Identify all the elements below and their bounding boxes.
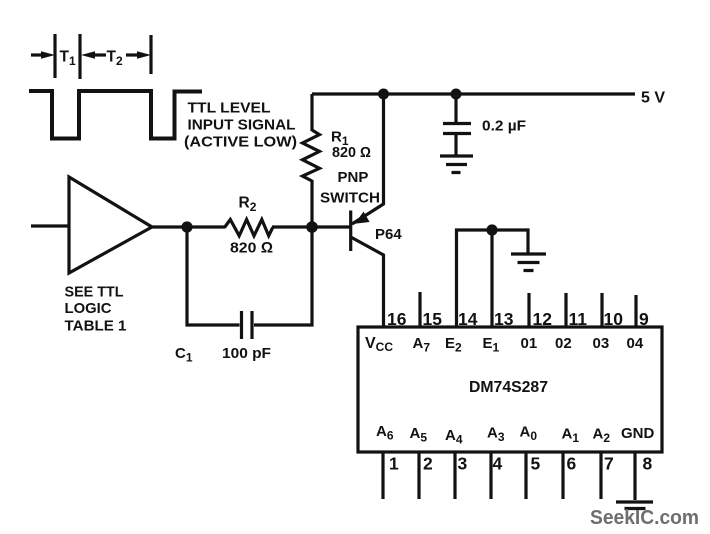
svg-text:5 V: 5 V xyxy=(641,90,665,107)
IC U2 DM74S287 box xyxy=(358,327,662,452)
capacitor 0.2uF top wire xyxy=(454,94,457,123)
capacitor C1 left wire xyxy=(187,227,240,325)
label 100 pF xyxy=(222,346,271,362)
svg-text:4: 4 xyxy=(493,454,503,474)
pin label 04 xyxy=(627,335,644,352)
svg-text:(ACTIVE LOW): (ACTIVE LOW) xyxy=(184,134,297,151)
node A junction dot buffer output xyxy=(181,221,192,232)
pin label A0 xyxy=(520,424,538,444)
pin number 7 xyxy=(604,454,614,474)
svg-text:10: 10 xyxy=(604,309,624,329)
svg-text:7: 7 xyxy=(604,454,614,474)
svg-text:C1: C1 xyxy=(175,345,193,365)
timing dimension tick T1/T2 middle xyxy=(78,34,81,79)
arrow T2 left xyxy=(81,51,106,59)
pin 6 stub xyxy=(561,452,564,499)
wire R2 to transistor base xyxy=(272,225,351,228)
pin 1 stub xyxy=(381,452,384,499)
wire buffer output to R2 xyxy=(152,225,225,228)
svg-text:GND: GND xyxy=(621,425,655,442)
svg-text:3: 3 xyxy=(458,454,468,474)
pin 10 stub xyxy=(600,293,603,327)
pin label 01 xyxy=(521,335,538,352)
svg-text:1: 1 xyxy=(389,454,399,474)
capacitor C1 plates xyxy=(242,311,253,339)
node rail dot at capacitor branch xyxy=(451,89,462,100)
svg-text:01: 01 xyxy=(521,335,538,352)
capacitor 0.2uF plates xyxy=(443,124,471,134)
label 5 V xyxy=(641,90,665,107)
svg-text:A1: A1 xyxy=(562,426,580,446)
svg-text:VCC: VCC xyxy=(365,335,393,354)
node rail dot at transistor branch xyxy=(378,89,389,100)
pin number 12 xyxy=(533,309,553,329)
5V rail wire xyxy=(312,92,635,95)
watermark SeekIC.com xyxy=(590,506,699,529)
TTL input waveform xyxy=(29,91,202,139)
label R1 xyxy=(331,129,349,149)
svg-text:E2: E2 xyxy=(445,335,462,355)
pin 4 stub xyxy=(489,452,492,499)
pin number 4 xyxy=(493,454,503,474)
svg-text:DM74S287: DM74S287 xyxy=(469,379,548,396)
pin number 8 xyxy=(643,454,653,474)
pin label A4 xyxy=(445,427,463,447)
svg-text:T2: T2 xyxy=(107,49,123,69)
svg-text:T1: T1 xyxy=(60,49,76,69)
node B junction dot base node xyxy=(306,221,318,233)
arrow into T1 tick xyxy=(31,51,55,59)
pin label A1 xyxy=(562,426,580,446)
pin number 3 xyxy=(458,454,468,474)
capacitor 0.2uF bottom wire xyxy=(454,133,457,156)
svg-text:A3: A3 xyxy=(487,425,505,445)
svg-text:16: 16 xyxy=(387,309,407,329)
label R2 xyxy=(239,195,257,215)
pin number 10 xyxy=(604,309,624,329)
wire input to buffer xyxy=(31,224,69,227)
pin number 11 xyxy=(569,309,588,329)
pin 3 stub xyxy=(453,452,456,499)
svg-text:12: 12 xyxy=(533,309,553,329)
svg-text:A6: A6 xyxy=(376,423,394,443)
svg-text:PNP: PNP xyxy=(338,169,369,186)
label C1 xyxy=(175,345,193,365)
svg-text:6: 6 xyxy=(567,454,577,474)
pin 5 stub xyxy=(524,452,527,499)
pin label E2 xyxy=(445,335,462,355)
svg-text:14: 14 xyxy=(458,309,478,329)
label 820 ohm R1 xyxy=(332,145,371,161)
timing dimension tick T2 right xyxy=(149,35,152,74)
label PNP SWITCH xyxy=(320,169,380,207)
svg-text:5: 5 xyxy=(531,454,541,474)
ground for E1/E2 xyxy=(511,254,546,271)
pin number 5 xyxy=(531,454,541,474)
label T1 xyxy=(60,49,76,69)
label T2 xyxy=(107,49,123,69)
transistor Q1 base bar xyxy=(349,211,352,252)
pin label A7 xyxy=(413,335,431,355)
transistor Q1 emitter wire from rail xyxy=(352,94,384,224)
pin number 14 xyxy=(458,309,478,329)
label 0.2 uF xyxy=(482,119,526,135)
wire E2/E1 tie xyxy=(457,230,529,327)
svg-text:A2: A2 xyxy=(593,426,611,446)
timing dimension tick T1 left xyxy=(53,34,56,78)
transistor Q1 collector wire to pin 16 xyxy=(351,237,384,327)
svg-text:A7: A7 xyxy=(413,335,431,355)
svg-text:SeekIC.com: SeekIC.com xyxy=(590,506,699,529)
svg-text:R2: R2 xyxy=(239,195,257,215)
label P64 xyxy=(375,226,402,243)
wire E1 riser xyxy=(490,230,493,327)
pin 8 stub xyxy=(633,452,636,500)
pin label GND xyxy=(621,425,655,442)
ground at pin 8 xyxy=(616,502,653,509)
svg-text:TABLE 1: TABLE 1 xyxy=(65,318,127,335)
svg-text:TTL LEVEL: TTL LEVEL xyxy=(188,100,271,117)
pin number 15 xyxy=(423,309,443,329)
pin number 1 xyxy=(389,454,399,474)
svg-text:P64: P64 xyxy=(375,226,402,243)
node junction dot E1 xyxy=(486,224,497,235)
pin label 03 xyxy=(593,335,610,352)
pin number 16 xyxy=(387,309,407,329)
pin label 02 xyxy=(555,335,572,352)
resistor R1 zigzag xyxy=(303,130,320,181)
svg-text:820 Ω: 820 Ω xyxy=(332,145,371,161)
pin label A3 xyxy=(487,425,505,445)
svg-text:15: 15 xyxy=(423,309,443,329)
pin number 6 xyxy=(567,454,577,474)
svg-text:8: 8 xyxy=(643,454,653,474)
resistor R1 bottom wire xyxy=(310,180,313,227)
pin 11 stub xyxy=(564,293,567,327)
pin 12 stub xyxy=(527,293,530,327)
svg-text:A5: A5 xyxy=(410,425,428,445)
ground below 0.2uF xyxy=(440,156,473,173)
svg-text:13: 13 xyxy=(494,309,514,329)
label DM74S287 xyxy=(469,379,548,396)
svg-text:0.2 µF: 0.2 µF xyxy=(482,119,526,135)
pin number 13 xyxy=(494,309,514,329)
transistor Q1 emitter arrowhead xyxy=(355,212,370,224)
pin label A5 xyxy=(410,425,428,445)
pin label E1 xyxy=(483,335,500,355)
svg-text:A0: A0 xyxy=(520,424,538,444)
pin 9 stub xyxy=(634,295,637,327)
svg-text:2: 2 xyxy=(423,454,433,474)
svg-text:03: 03 xyxy=(593,335,610,352)
svg-text:11: 11 xyxy=(569,309,588,329)
label SEE TTL LOGIC TABLE 1 xyxy=(65,284,127,335)
svg-text:02: 02 xyxy=(555,335,572,352)
resistor R1 top wire xyxy=(310,94,313,131)
svg-text:SWITCH: SWITCH xyxy=(320,190,380,207)
label 820 ohm R2 xyxy=(230,240,273,257)
buffer U1 triangle xyxy=(69,177,152,273)
svg-text:SEE TTL: SEE TTL xyxy=(65,284,124,301)
pin label A2 xyxy=(593,426,611,446)
svg-text:INPUT SIGNAL: INPUT SIGNAL xyxy=(188,117,296,134)
pin 7 stub xyxy=(599,452,602,499)
pin 2 stub xyxy=(417,452,420,499)
resistor R2 zigzag xyxy=(225,220,273,236)
svg-text:E1: E1 xyxy=(483,335,500,355)
svg-text:100 pF: 100 pF xyxy=(222,346,271,362)
arrow T2 right xyxy=(126,51,151,59)
svg-text:9: 9 xyxy=(639,309,649,329)
label TTL LEVEL INPUT SIGNAL (ACTIVE LOW) xyxy=(184,100,297,151)
pin number 2 xyxy=(423,454,433,474)
svg-text:LOGIC: LOGIC xyxy=(65,300,112,317)
capacitor C1 right wire xyxy=(254,227,312,325)
pin number 9 xyxy=(639,309,649,329)
pin label A6 xyxy=(376,423,394,443)
svg-text:820 Ω: 820 Ω xyxy=(230,240,273,257)
pin 15 stub xyxy=(418,292,421,327)
pin label VCC xyxy=(365,335,393,354)
svg-text:A4: A4 xyxy=(445,427,463,447)
svg-text:04: 04 xyxy=(627,335,644,352)
